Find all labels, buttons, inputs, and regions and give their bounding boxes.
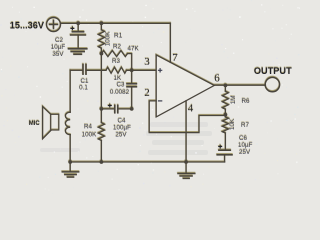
wire: ground bus [70,161,224,163]
output terminal circle [265,77,279,91]
svg-text:47K: 47K [128,45,140,52]
svg-text:C3: C3 [116,82,125,89]
node: R1 bottom / bias node [100,52,104,56]
svg-text:OUTPUT: OUTPUT [254,66,292,76]
capacitor C6 10uF (polarized) [217,150,232,162]
node: rail/R1 junction [100,21,104,25]
wire: output [214,84,265,86]
svg-text:7: 7 [172,52,178,64]
resistor R1 100K [100,23,102,30]
microphone MIC (speaker + coil) [43,107,59,139]
plus mark C4 [108,104,112,108]
wire: C1 to pin3 signal line [86,69,106,71]
svg-text:R1: R1 [114,33,123,40]
resistor R3 1K [106,67,127,73]
svg-text:R6: R6 [242,98,251,105]
svg-text:0.1: 0.1 [79,85,88,92]
plus mark C2 [70,26,74,30]
resistor R2 47K [101,51,127,57]
svg-text:4: 4 [188,103,194,115]
node: mic/bus junction [68,160,72,164]
svg-text:15...36V: 15...36V [10,20,45,30]
ground (center, below pin4) [178,162,195,178]
voltage source B1 15...36V [47,18,61,32]
node: output/R6 junction [224,84,228,88]
wire: bias column [100,54,102,109]
svg-text:0.0082: 0.0082 [110,89,130,96]
svg-text:3: 3 [144,56,150,68]
svg-text:1M: 1M [230,96,237,105]
node: R6/R7 junction [224,113,228,117]
svg-text:100K: 100K [82,132,98,139]
svg-text:100µF: 100µF [113,125,131,132]
plus mark C6 [218,145,222,149]
svg-text:R2: R2 [113,44,122,51]
svg-text:6: 6 [214,73,220,85]
svg-text:R3: R3 [112,58,121,65]
svg-text:C2: C2 [55,37,64,44]
svg-text:25V: 25V [239,149,251,156]
resistor R4 100K [100,109,102,123]
wire: V+ rail [61,22,171,24]
plus input mark [158,68,162,72]
svg-text:10K: 10K [229,118,236,130]
svg-text:R4: R4 [84,124,93,131]
wire: pin 2 feedback path [149,101,225,133]
svg-text:10µF: 10µF [238,142,253,149]
node: C4 right [130,107,134,111]
svg-text:C4: C4 [117,118,126,125]
svg-text:35V: 35V [52,51,64,58]
wire: pin 4 to ground bus [185,101,187,162]
svg-text:10µF: 10µF [51,44,66,51]
op-amp U1 [156,55,214,117]
resistor R6 1M [224,85,226,91]
svg-text:25V: 25V [115,132,127,139]
capacitor C4 100uF (polarized) [101,105,131,112]
node: C4 left [100,107,104,111]
node: rail/C2 junction [76,21,80,25]
svg-text:R7: R7 [241,122,250,129]
coil L1 (mic voice coil) [69,70,71,112]
resistor R7 10K [224,115,226,117]
svg-text:2: 2 [144,87,150,99]
capacitor C1 0.1 [70,65,86,75]
svg-text:MIC: MIC [29,121,41,127]
node: R3/R2/C3 junction [130,68,134,72]
minus input mark [158,100,162,102]
svg-text:C6: C6 [239,135,248,142]
node: pin4/bus junction [184,160,188,164]
capacitor C2 (polarized, to ground) [71,23,86,48]
svg-text:100K: 100K [105,31,112,47]
wire: pin 7 supply drop [169,23,171,62]
ground (below C2) [69,49,87,55]
node: R4/bus junction [100,160,104,164]
capacitor C3 0.0082 [127,70,136,109]
ground (left, below mic junction) [62,162,78,177]
